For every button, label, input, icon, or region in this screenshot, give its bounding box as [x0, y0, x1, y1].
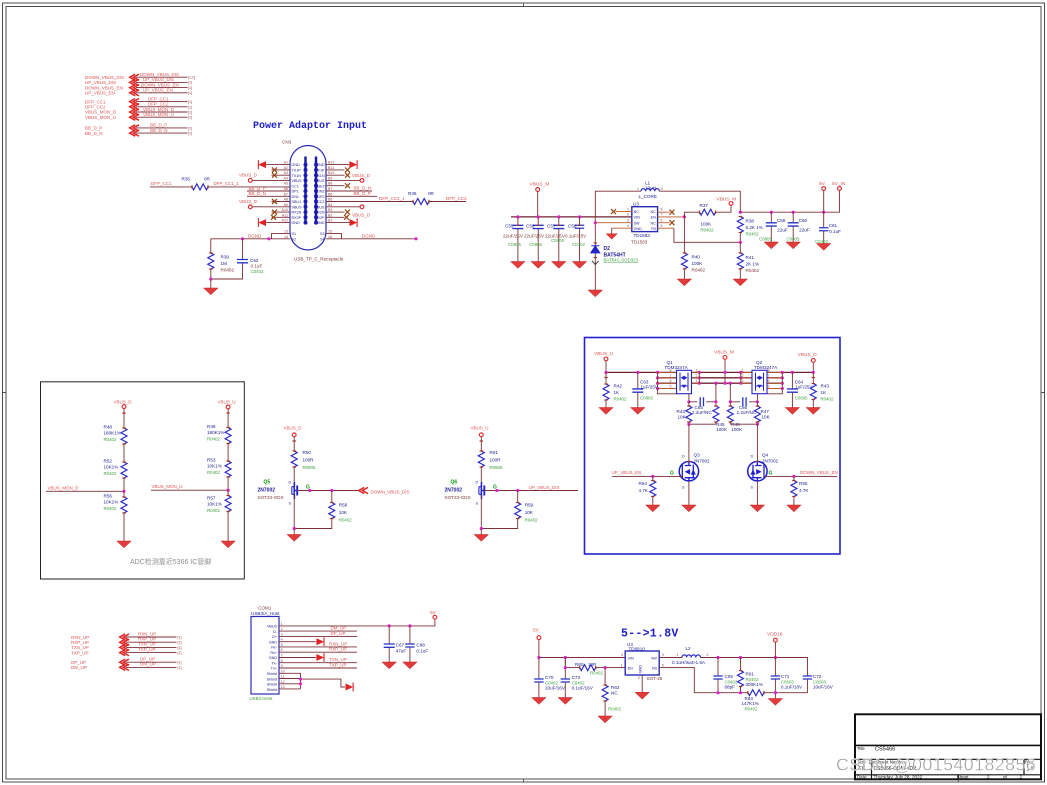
svg-text:D: D [682, 455, 685, 459]
svg-text:C68: C68 [416, 643, 425, 648]
wire Q2 gate bottom link [730, 423, 757, 425]
svg-text:R58: R58 [339, 502, 348, 507]
node DP_UP flag [71, 657, 182, 666]
svg-text:VDD18: VDD18 [767, 631, 783, 637]
svg-text:RXN_UP: RXN_UP [329, 641, 347, 646]
svg-text:UP_VBUS_EN: UP_VBUS_EN [85, 91, 115, 96]
resistor R52 10K [104, 459, 128, 492]
svg-text:A11: A11 [282, 213, 288, 217]
resistor R54 4.7K [639, 476, 661, 511]
svg-text:BB_D_P: BB_D_P [249, 186, 266, 191]
svg-text:EN: EN [628, 667, 633, 671]
svg-text:[1]: [1] [188, 86, 192, 90]
svg-text:15: 15 [328, 230, 332, 234]
svg-text:2.2uF/NC: 2.2uF/NC [692, 410, 712, 415]
wire L1 to output node [659, 191, 740, 212]
wire shield pins joined [279, 673, 353, 691]
svg-text:5: 5 [662, 663, 664, 667]
svg-text:R0402: R0402 [746, 231, 759, 236]
svg-text:G: G [670, 471, 674, 477]
svg-text:Rx+: Rx+ [270, 651, 277, 655]
resistor R39 1M [208, 239, 235, 279]
svg-text:7: 7 [281, 654, 283, 658]
wire A2 TX1P nc [272, 167, 291, 172]
resistor R40 100K (EN to gnd) [677, 217, 705, 286]
svg-text:SOT-25: SOT-25 [647, 676, 663, 681]
resistor R37 100K to VBUS_M [684, 203, 731, 232]
capacitor C66 2.2uF NC [730, 397, 757, 415]
wire A10 RX2N nc [272, 210, 291, 215]
node DOWN_VBUS_EN flag [85, 82, 192, 90]
svg-text:DOWN_VBUS_DIS: DOWN_VBUS_DIS [371, 489, 410, 494]
svg-text:VBUS_U: VBUS_U [471, 426, 489, 431]
wire B7 DN2 / net BB_D_N [326, 186, 372, 191]
svg-text:RX1N: RX1N [315, 174, 325, 178]
svg-text:7: 7 [670, 374, 672, 378]
svg-text:100K: 100K [731, 427, 743, 432]
transistor Q5 2N7002 [258, 480, 298, 529]
svg-text:D+: D+ [272, 635, 277, 639]
svg-text:B7: B7 [328, 187, 332, 191]
svg-text:DP2: DP2 [317, 195, 324, 199]
svg-text:VBUS_D: VBUS_D [239, 173, 258, 178]
node DFP_CC2 flag [85, 102, 192, 110]
svg-text:DN1: DN1 [292, 195, 299, 199]
ground left divider [117, 541, 131, 548]
transistor Q6 2N7002 [445, 480, 485, 529]
wire Tx- / net TXN_UP [279, 657, 357, 663]
svg-text:VBUS: VBUS [292, 205, 303, 209]
capacitor C57 22uF/25V [545, 217, 566, 268]
wire B3 TX2N nc [326, 210, 350, 215]
svg-text:Shield: Shield [267, 683, 277, 687]
transistor Q3 2N7002 [679, 453, 710, 490]
connector COM1 USB3/A_Host [250, 606, 285, 701]
CN3 left pin numbers A1-A12 [282, 161, 288, 239]
wire D- / net DM_UP [279, 626, 357, 632]
svg-text:USB_TP_C_Receptacle: USB_TP_C_Receptacle [294, 257, 344, 262]
capacitor C61 0.1uF [815, 212, 841, 250]
svg-text:B6: B6 [328, 192, 332, 196]
CN3 left pin names [292, 163, 303, 241]
svg-text:RX2P: RX2P [292, 216, 302, 220]
svg-text:R0402: R0402 [745, 706, 758, 711]
svg-text:3: 3 [696, 379, 698, 383]
svg-text:R51: R51 [490, 450, 499, 455]
wire DOWN_VBUS_EN to Q4 gate [764, 470, 838, 478]
wire A3 TX1N nc [272, 173, 291, 178]
svg-text:100R: 100R [490, 458, 502, 463]
node RXN_UP flag [71, 631, 182, 640]
svg-text:8: 8 [670, 368, 672, 372]
svg-text:10K1%: 10K1% [104, 500, 119, 505]
wire S3 S4 shield to DGND [326, 233, 418, 240]
wire B8 SBU2 nc [326, 183, 350, 188]
resistor R63 147K [742, 690, 808, 712]
wire FB feedback network [659, 668, 748, 693]
svg-text:5V_IN: 5V_IN [832, 181, 846, 187]
svg-text:DN2: DN2 [317, 190, 324, 194]
node RXP_UP flag [71, 637, 182, 646]
junction FB node [739, 241, 742, 244]
svg-text:C71: C71 [781, 674, 790, 679]
svg-text:B9: B9 [328, 176, 332, 180]
svg-text:[1]: [1] [188, 126, 192, 130]
resistor R38 6.2K [737, 217, 763, 243]
svg-text:100K: 100K [716, 427, 728, 432]
junction at R39 bottom [209, 277, 212, 280]
wire B5 CC2 / net DFP_CC2 [326, 196, 467, 202]
svg-text:GND: GND [639, 665, 643, 674]
svg-text:TD1583: TD1583 [631, 240, 648, 245]
CN3 contact columns [306, 157, 317, 224]
svg-text:4: 4 [621, 653, 623, 657]
ground below D2 [588, 290, 602, 297]
svg-text:8: 8 [661, 207, 663, 211]
resistor R49 180K [207, 424, 231, 461]
svg-text:4.7K: 4.7K [639, 488, 649, 493]
resistor R60 10R (EN pullup) [564, 658, 626, 676]
capacitor C58 0.1uF/25V [565, 217, 587, 268]
svg-text:C59: C59 [777, 218, 786, 223]
svg-text:R0402: R0402 [746, 268, 760, 273]
svg-text:1K: 1K [821, 390, 828, 395]
svg-text:DM_UP: DM_UP [71, 665, 87, 670]
svg-text:2: 2 [661, 187, 663, 191]
svg-text:EN: EN [651, 216, 656, 220]
wire bus row2 [658, 377, 783, 379]
box frame [41, 382, 245, 579]
svg-text:10K: 10K [762, 415, 771, 420]
svg-text:R0402: R0402 [104, 506, 117, 511]
svg-text:VBUS_U: VBUS_U [594, 351, 614, 357]
svg-text:TX1P: TX1P [292, 169, 302, 173]
svg-text:R0805: R0805 [303, 465, 316, 470]
resistor R44 10K [677, 402, 692, 424]
capacitor C60 22uF [786, 212, 810, 249]
wire B2 TX2P nc [326, 215, 349, 220]
svg-text:6: 6 [661, 218, 663, 222]
svg-text:C72: C72 [813, 674, 822, 679]
wire S1 S2 shield to DGND [211, 233, 290, 240]
svg-text:A8: A8 [284, 198, 288, 202]
svg-text:A12: A12 [282, 219, 288, 223]
svg-text:USB3.0A06: USB3.0A06 [250, 696, 274, 701]
svg-text:D: D [289, 481, 292, 485]
capacitor C64 1uF/25V [785, 372, 813, 414]
svg-text:10K1%: 10K1% [207, 502, 222, 507]
svg-text:22uF/25V: 22uF/25V [524, 233, 545, 238]
svg-text:R57: R57 [207, 496, 216, 501]
svg-text:8: 8 [768, 368, 770, 372]
node 5V output junction [739, 211, 742, 214]
svg-text:SBU2: SBU2 [315, 184, 325, 188]
svg-text:R0402: R0402 [608, 706, 621, 711]
svg-text:5: 5 [670, 385, 672, 389]
svg-text:VBUS: VBUS [314, 205, 325, 209]
svg-text:C56: C56 [526, 223, 535, 228]
svg-text:Q3: Q3 [694, 453, 701, 458]
svg-text:5: 5 [661, 224, 663, 228]
svg-text:TXP_UP: TXP_UP [329, 663, 347, 668]
svg-text:VBUS_D: VBUS_D [114, 400, 133, 405]
wire U3 pin6 NC [658, 220, 675, 225]
wire U3 pin5 FB to divider [658, 227, 674, 229]
svg-text:DP1: DP1 [292, 190, 299, 194]
svg-text:TX1N: TX1N [292, 174, 302, 178]
svg-text:2N7002: 2N7002 [445, 488, 463, 494]
wire U3 pin7 EN [658, 215, 686, 218]
svg-text:2K 1%: 2K 1% [746, 261, 760, 266]
svg-text:1K: 1K [614, 390, 621, 395]
node VBUS_M at R37 [717, 197, 737, 206]
svg-text:Q4: Q4 [762, 453, 769, 458]
svg-text:1: 1 [281, 622, 283, 626]
node TXP_UP flag [71, 647, 182, 656]
svg-text:C0402: C0402 [545, 680, 558, 685]
node 5V [819, 181, 826, 212]
svg-text:R43: R43 [821, 383, 830, 388]
wire GND pin7 [279, 653, 324, 662]
svg-text:R59: R59 [525, 502, 534, 507]
svg-text:6.2K 1%: 6.2K 1% [746, 225, 763, 230]
resistor R45 100K [713, 383, 728, 432]
svg-text:A10: A10 [282, 208, 288, 212]
wire VBUS_MON_U [151, 484, 230, 492]
svg-text:C0805: C0805 [508, 242, 521, 247]
wire ladder verticals and row4 wraps [658, 372, 783, 388]
resistor R48 180K [104, 425, 128, 462]
svg-text:VIN: VIN [634, 216, 640, 220]
svg-text:R0402: R0402 [692, 267, 706, 272]
svg-text:R47: R47 [761, 409, 770, 414]
svg-text:2: 2 [696, 374, 698, 378]
svg-text:R0402: R0402 [207, 470, 220, 475]
svg-text:4: 4 [281, 638, 283, 642]
svg-text:0.1uF: 0.1uF [416, 649, 428, 654]
svg-text:R39: R39 [221, 255, 230, 260]
svg-text:1: 1 [677, 653, 679, 657]
svg-text:10uF/16V: 10uF/16V [813, 685, 834, 690]
node VBUS_U (divider) [218, 400, 236, 428]
svg-text:10K: 10K [339, 510, 348, 515]
svg-text:UP_VBUS_DIS: UP_VBUS_DIS [529, 485, 560, 490]
node VDD18 [767, 631, 783, 657]
svg-text:SW: SW [651, 656, 657, 660]
svg-text:2: 2 [742, 374, 744, 378]
resistor R47 10K [754, 402, 770, 424]
svg-text:5V: 5V [533, 628, 540, 634]
wire A8 SBU1 nc [272, 199, 291, 204]
svg-text:10K1%: 10K1% [104, 465, 119, 470]
svg-text:C69: C69 [725, 674, 734, 679]
svg-text:C0805: C0805 [795, 395, 808, 400]
svg-text:100K: 100K [701, 222, 713, 227]
svg-text:RXP_UP: RXP_UP [329, 647, 347, 652]
node UP_VBUS_EN flag [85, 88, 192, 96]
wire B12 GND [326, 160, 357, 169]
svg-text:GND: GND [269, 640, 278, 644]
svg-text:VBUS_M: VBUS_M [714, 349, 734, 355]
svg-text:CC1: CC1 [292, 184, 299, 188]
svg-text:A3: A3 [284, 171, 288, 175]
svg-text:S2: S2 [292, 237, 297, 241]
svg-text:B2: B2 [328, 213, 332, 217]
svg-text:A6: A6 [284, 187, 288, 191]
svg-text:VBUS: VBUS [314, 179, 325, 183]
wire U4 GND pin to ground [635, 675, 649, 699]
svg-text:3: 3 [742, 379, 744, 383]
resistor R46 100K [727, 383, 743, 432]
svg-text:R52: R52 [104, 459, 113, 464]
svg-text:2N7002: 2N7002 [762, 458, 779, 463]
component lead tick marks [122, 185, 815, 701]
svg-text:NC: NC [611, 690, 618, 695]
svg-text:Rx-: Rx- [271, 646, 278, 650]
wire Q2 gate to Q4 drain [756, 424, 758, 461]
svg-text:VBUS_MON_U: VBUS_MON_U [152, 484, 183, 489]
svg-text:Shield: Shield [267, 677, 277, 681]
svg-text:[1]: [1] [178, 666, 182, 670]
wire Q5 gate / net DOWN_VBUS_DIS [297, 485, 409, 495]
svg-text:Tx-: Tx- [272, 662, 278, 666]
wire Q1 gate to Q3 drain [688, 424, 690, 461]
wire U3 pin8 NC [658, 210, 675, 215]
svg-text:0.1uF/16V: 0.1uF/16V [781, 685, 803, 690]
svg-text:R40: R40 [692, 254, 701, 259]
svg-text:C55: C55 [505, 223, 514, 228]
svg-text:6: 6 [768, 379, 770, 383]
svg-text:B8: B8 [328, 182, 332, 186]
svg-text:CS5466: CS5466 [875, 746, 895, 752]
svg-text:5V: 5V [819, 181, 826, 187]
transistor Q4 2N7002 [748, 453, 779, 490]
inductor L2 [672, 646, 709, 665]
svg-text:TXN_UP: TXN_UP [329, 657, 347, 662]
wire Q3 source to ground [682, 481, 696, 512]
svg-text:R62: R62 [611, 685, 620, 690]
svg-text:R0402: R0402 [339, 517, 352, 522]
svg-text:R56: R56 [104, 494, 113, 499]
svg-text:1uF/25V: 1uF/25V [641, 384, 659, 389]
wire B9 VBUS, node VBUS_D [326, 173, 371, 182]
node 5V (COM1) [430, 610, 437, 619]
resistor R35 0R [182, 176, 211, 190]
svg-text:USB3/A_Host: USB3/A_Host [251, 611, 280, 616]
svg-text:R0402: R0402 [821, 396, 834, 401]
junction + ground Q6 [474, 527, 488, 541]
svg-text:C0805: C0805 [787, 237, 800, 242]
wire Q1 gate vertical [688, 394, 690, 402]
svg-text:C58: C58 [568, 223, 577, 228]
svg-text:9: 9 [281, 664, 283, 668]
ground right divider [221, 541, 235, 548]
svg-text:C57: C57 [547, 223, 556, 228]
wire L1 top rail [595, 191, 641, 223]
svg-text:ADC检测靠近5366 IC管脚: ADC检测靠近5366 IC管脚 [130, 557, 211, 566]
transistor Q1 TDM3247A [658, 360, 700, 394]
svg-text:B1: B1 [328, 219, 332, 223]
svg-text:R0805: R0805 [490, 465, 503, 470]
svg-text:VIN: VIN [628, 656, 634, 660]
inductor L1 10uH [637, 180, 663, 199]
svg-text:Shield: Shield [267, 688, 277, 692]
svg-text:5: 5 [768, 385, 770, 389]
node BB_D_N flag [85, 128, 192, 136]
svg-text:TX2P: TX2P [315, 216, 325, 220]
svg-text:10: 10 [281, 669, 285, 673]
svg-text:10K: 10K [525, 510, 534, 515]
svg-text:R0402: R0402 [701, 227, 714, 232]
wire A7 DN1 / net BB_D_N [247, 191, 290, 196]
svg-text:R49: R49 [207, 424, 216, 429]
wire L2 to output rail [700, 658, 807, 677]
svg-text:UP_VBUS_EN: UP_VBUS_EN [143, 88, 173, 93]
svg-text:1: 1 [637, 187, 639, 191]
svg-text:VBUS_U: VBUS_U [218, 400, 236, 405]
node DM_UP flag [71, 662, 182, 671]
wire A9 VBUS, node VBUS_D [239, 199, 290, 209]
svg-text:68pF: 68pF [725, 685, 736, 690]
svg-text:C62: C62 [250, 258, 259, 263]
svg-text:R0402: R0402 [614, 396, 627, 401]
wire Q2 gate vertical [756, 394, 758, 402]
svg-text:0.1uF/16V: 0.1uF/16V [572, 686, 594, 691]
svg-text:10uF/16V: 10uF/16V [545, 686, 566, 691]
svg-text:G: G [306, 485, 310, 491]
svg-text:R63: R63 [745, 696, 754, 701]
svg-text:1: 1 [627, 207, 629, 211]
svg-text:DFP_CC1_1: DFP_CC1_1 [214, 181, 240, 186]
svg-text:DGND: DGND [362, 233, 376, 238]
svg-text:2: 2 [638, 676, 640, 680]
wire GND pin4 [279, 637, 324, 646]
capacitor C67 47uF [382, 626, 406, 669]
svg-text:Sheet: Sheet [957, 774, 970, 779]
junction + ground Q5 [287, 527, 301, 541]
resistor R56 10K [104, 491, 128, 541]
svg-text:GND: GND [269, 656, 278, 660]
svg-text:3: 3 [662, 653, 664, 657]
svg-text:R35: R35 [182, 176, 191, 181]
svg-text:R0402: R0402 [221, 268, 235, 273]
svg-text:TDM3247A: TDM3247A [754, 365, 778, 370]
svg-text:R0402: R0402 [104, 471, 117, 476]
svg-text:DFP_CC2: DFP_CC2 [446, 196, 467, 201]
wire Q1 gate bottom link [689, 423, 716, 425]
svg-text:NC: NC [650, 210, 656, 214]
svg-text:VBUS_D: VBUS_D [239, 199, 258, 204]
svg-text:DFP_CC1: DFP_CC1 [151, 181, 172, 186]
resistor R42 1K [599, 372, 627, 414]
svg-text:7: 7 [768, 374, 770, 378]
svg-text:R61: R61 [746, 672, 755, 677]
svg-text:1: 1 [696, 368, 698, 372]
svg-text:SOT23-GDS: SOT23-GDS [258, 495, 284, 500]
svg-text:[1]: [1] [188, 116, 192, 120]
svg-text:100K: 100K [692, 261, 704, 266]
svg-text:DGND: DGND [248, 233, 262, 238]
regulator U3 TD1583 [627, 201, 663, 244]
capacitor C62 0.1uF [211, 239, 264, 279]
svg-text:L_CORE: L_CORE [639, 194, 657, 199]
svg-text:[1]: [1] [188, 111, 192, 115]
svg-text:C61: C61 [829, 223, 838, 228]
resistor R51 100R [478, 450, 503, 482]
wire 5V rail to VIN [539, 657, 625, 659]
svg-text:BB_D_N: BB_D_N [249, 191, 267, 196]
svg-text:0.1uF: 0.1uF [251, 264, 263, 269]
